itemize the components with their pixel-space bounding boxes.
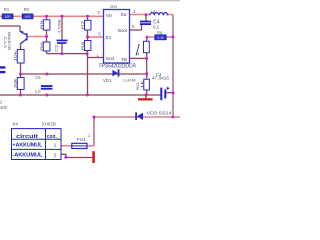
svg-text:Gnd: Gnd (106, 56, 115, 61)
svg-text:VD3 SS14: VD3 SS14 (147, 110, 173, 115)
svg-text:Vin: Vin (106, 13, 113, 18)
svg-text:30k: 30k (12, 78, 17, 88)
svg-text:10R: 10R (4, 15, 11, 19)
svg-text:X4: X4 (12, 122, 18, 127)
svg-text:En: En (106, 35, 112, 40)
svg-text:XH02D: XH02D (42, 122, 57, 127)
svg-text:C5: C5 (35, 75, 41, 80)
svg-text:2: 2 (54, 152, 57, 158)
svg-text:VD1: VD1 (103, 78, 112, 83)
svg-text:C2: C2 (54, 45, 59, 52)
svg-text:FU1: FU1 (77, 137, 87, 142)
svg-text:47,0x16: 47,0x16 (152, 76, 170, 81)
svg-text:10k: 10k (12, 51, 17, 62)
svg-text:4,7x50B: 4,7x50B (56, 19, 61, 33)
svg-text:+AKKUMUL: +AKKUMUL (12, 143, 42, 149)
svg-text:1: 1 (54, 142, 57, 148)
svg-text:R6: R6 (39, 42, 44, 51)
svg-text:R11: R11 (135, 82, 140, 90)
svg-text:-AKKUMUL: -AKKUMUL (12, 153, 42, 159)
svg-text:BC846B: BC846B (8, 31, 12, 50)
svg-text:R7: R7 (80, 21, 85, 30)
svg-text:FB: FB (122, 57, 128, 62)
svg-text:1,0: 1,0 (35, 89, 41, 94)
svg-text:3.3k: 3.3k (157, 36, 164, 40)
svg-text:R5: R5 (39, 21, 44, 30)
svg-text:TPS54202DDCR: TPS54202DDCR (99, 63, 137, 69)
svg-text:Sw: Sw (121, 12, 128, 17)
svg-text:Boot: Boot (118, 28, 128, 33)
svg-text:R1: R1 (4, 7, 10, 12)
svg-text:R2: R2 (24, 7, 30, 12)
svg-text:con.: con. (47, 134, 57, 140)
svg-text:0,1: 0,1 (153, 25, 160, 30)
svg-text:R9: R9 (157, 30, 163, 35)
svg-text:circuit: circuit (16, 134, 38, 140)
svg-text:R8: R8 (80, 42, 85, 51)
svg-text:40C: 40C (0, 105, 8, 110)
svg-text:10R: 10R (24, 15, 31, 19)
svg-text:DA1: DA1 (111, 4, 118, 9)
svg-text:LL4148: LL4148 (124, 78, 136, 83)
svg-text:L4: L4 (151, 9, 156, 14)
